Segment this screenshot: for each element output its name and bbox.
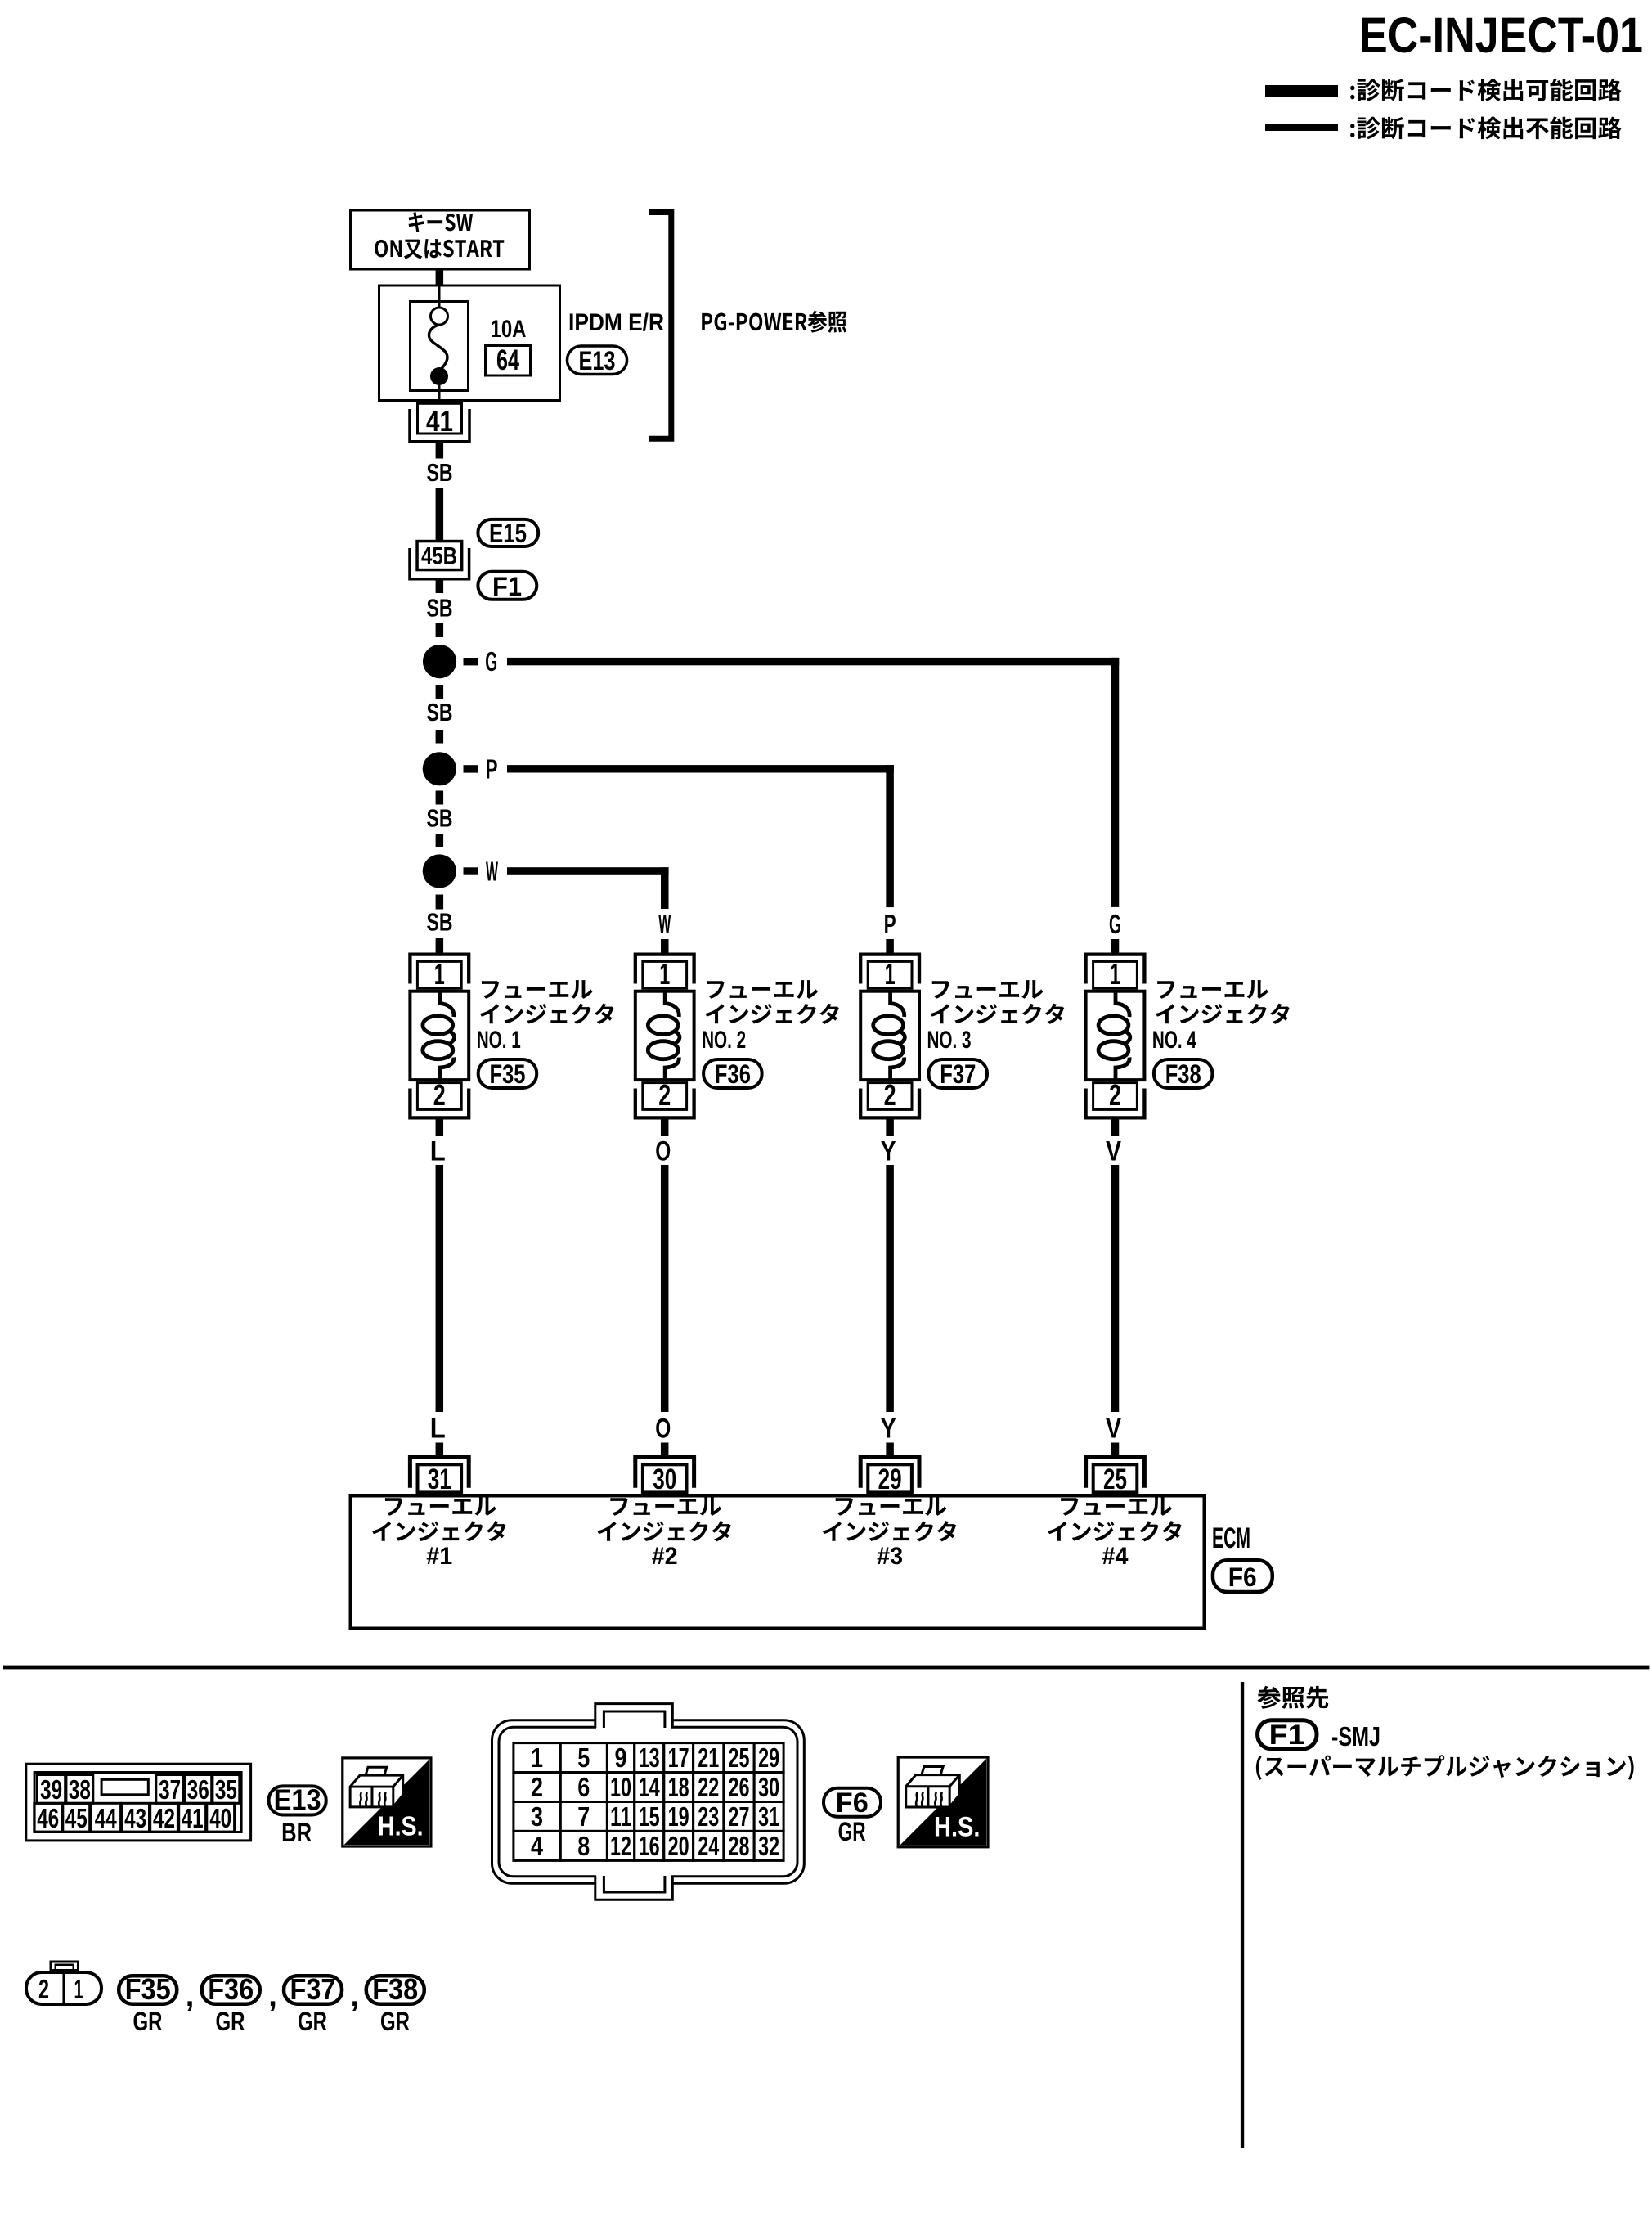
svg-text:F6: F6 — [836, 1787, 869, 1819]
connector E13 oval (BR) — [269, 1786, 326, 1814]
wire SB to connector 45B — [436, 488, 444, 540]
wire stub below pin 41 (SB) — [436, 443, 444, 459]
svg-text:1: 1 — [885, 957, 896, 991]
pin 41 of IPDM — [410, 409, 469, 442]
svg-text:15: 15 — [639, 1801, 660, 1832]
wire injector NO. 4 to ECM (V) — [1111, 1120, 1120, 1137]
connector F35 oval (GR) — [119, 1976, 177, 2004]
svg-text:O: O — [655, 1414, 671, 1445]
junction dot W branch — [423, 854, 456, 888]
svg-text:13: 13 — [639, 1742, 660, 1773]
svg-text:Y: Y — [881, 1136, 896, 1167]
svg-text:2: 2 — [38, 1974, 49, 2004]
svg-text:28: 28 — [729, 1831, 750, 1861]
svg-text:21: 21 — [698, 1742, 719, 1773]
fuse box — [411, 302, 469, 391]
svg-text:40: 40 — [209, 1803, 231, 1833]
svg-text:GR: GR — [298, 2007, 327, 2036]
svg-text:9: 9 — [615, 1742, 627, 1773]
svg-text:SB: SB — [427, 594, 453, 623]
wire dash — [436, 834, 444, 848]
label fuel injector NO. 2 — [707, 980, 817, 999]
wire dash — [436, 623, 444, 637]
svg-text:L: L — [430, 1136, 446, 1167]
legend thin-line bar (non-diagnosable circuit) — [1265, 124, 1338, 131]
connector E15 oval — [478, 519, 538, 546]
svg-text:42: 42 — [153, 1803, 175, 1833]
svg-text:SB: SB — [427, 698, 453, 726]
svg-text:F6: F6 — [1228, 1562, 1257, 1592]
svg-text:E13: E13 — [274, 1783, 321, 1817]
svg-text:2: 2 — [433, 1078, 446, 1112]
ECM pin 29 — [860, 1458, 919, 1488]
wire fuse to pin 41 — [438, 385, 441, 402]
svg-text:35: 35 — [215, 1774, 237, 1805]
svg-text:25: 25 — [1103, 1463, 1127, 1495]
svg-text:GR: GR — [380, 2007, 410, 2036]
svg-text:#1: #1 — [426, 1543, 452, 1570]
connector F37 oval — [929, 1059, 988, 1088]
IPDM E/R box — [379, 285, 560, 401]
wire G branch drop to injector NO.4 — [1111, 658, 1120, 907]
svg-text:NO. 2: NO. 2 — [702, 1027, 746, 1054]
label super multiple junction — [1256, 1755, 1634, 1780]
svg-text:31: 31 — [758, 1801, 779, 1832]
svg-text:26: 26 — [729, 1772, 750, 1802]
svg-text:2: 2 — [531, 1772, 543, 1802]
svg-text:,: , — [351, 1979, 360, 2013]
ECM label fuel injector #3 — [836, 1497, 946, 1516]
connector F6 pin grid (32 pin) — [492, 1704, 805, 1900]
svg-text:SB: SB — [427, 458, 453, 487]
svg-text:GR: GR — [838, 1817, 866, 1846]
svg-text:10A: 10A — [491, 316, 527, 343]
bracket PG-POWER reference — [649, 213, 671, 439]
svg-text:11: 11 — [610, 1801, 631, 1832]
svg-text:,: , — [186, 1979, 195, 2013]
svg-text:19: 19 — [668, 1801, 689, 1832]
svg-text:5: 5 — [577, 1742, 590, 1773]
fuse number 64 box — [486, 346, 531, 376]
svg-text:V: V — [1106, 1414, 1121, 1445]
svg-text:38: 38 — [69, 1774, 91, 1805]
connector F36 oval (GR) — [202, 1976, 260, 2004]
ECM label fuel injector #1 — [385, 1497, 496, 1516]
wire P branch horizontal — [507, 765, 894, 772]
wire dash — [436, 730, 444, 744]
connector F1 oval — [478, 572, 536, 600]
key switch box (key SW ON or START) — [351, 210, 530, 269]
svg-text:E15: E15 — [489, 519, 527, 548]
H.S. icon (harness side) for E13 — [343, 1758, 431, 1846]
svg-text:2: 2 — [658, 1078, 671, 1112]
legend thick-line bar (diagnosable circuit) — [1265, 85, 1338, 97]
svg-text:2: 2 — [1109, 1078, 1121, 1112]
svg-text:F37: F37 — [290, 1972, 336, 2006]
label fuel injector NO. 3 — [932, 980, 1043, 999]
svg-text:1: 1 — [74, 1974, 83, 2004]
wire W branch horizontal — [507, 867, 669, 875]
svg-text:W: W — [658, 909, 671, 939]
svg-text:L: L — [430, 1414, 446, 1445]
svg-text:22: 22 — [698, 1772, 719, 1802]
svg-text:14: 14 — [639, 1772, 660, 1802]
ECM pin 25 — [1086, 1458, 1145, 1488]
connector F36 oval — [703, 1059, 762, 1088]
svg-text:10: 10 — [610, 1772, 631, 1802]
svg-text:#4: #4 — [1102, 1543, 1129, 1570]
svg-text:F1: F1 — [492, 572, 522, 601]
wire dash — [436, 791, 444, 805]
branch dash to W label — [464, 867, 478, 874]
fuel injector NO. 2 coil (F36) — [635, 955, 694, 1118]
svg-text:-SMJ: -SMJ — [1331, 1721, 1380, 1751]
svg-text:NO. 1: NO. 1 — [477, 1027, 521, 1054]
svg-text:23: 23 — [698, 1801, 719, 1832]
connector E13 oval — [567, 346, 626, 374]
svg-text:24: 24 — [698, 1831, 719, 1861]
connector F6 oval (GR) — [824, 1788, 881, 1817]
svg-text:6: 6 — [577, 1772, 590, 1802]
svg-text:Y: Y — [881, 1414, 896, 1445]
label fuel injector NO. 4 — [1157, 980, 1268, 999]
wire into fuse — [438, 285, 441, 308]
svg-text:ECM: ECM — [1212, 1522, 1250, 1554]
svg-text:17: 17 — [668, 1742, 689, 1773]
svg-text:25: 25 — [729, 1742, 750, 1773]
svg-text:29: 29 — [758, 1742, 779, 1773]
vertical divider — [1241, 1682, 1244, 2148]
svg-text:18: 18 — [668, 1772, 689, 1802]
svg-text:8: 8 — [577, 1831, 590, 1861]
svg-text:F38: F38 — [1165, 1059, 1201, 1089]
svg-text:F37: F37 — [940, 1059, 976, 1089]
svg-text:F35: F35 — [490, 1059, 526, 1089]
svg-text:2: 2 — [884, 1078, 896, 1112]
svg-text:NO. 3: NO. 3 — [927, 1027, 972, 1054]
svg-text:F38: F38 — [372, 1972, 418, 2006]
junction dot G branch — [423, 645, 456, 678]
fuel injector NO. 3 coil (F37) — [860, 955, 919, 1118]
svg-text:1: 1 — [531, 1742, 543, 1773]
svg-text:,: , — [268, 1979, 277, 2013]
svg-text:36: 36 — [187, 1774, 209, 1805]
svg-text:1: 1 — [659, 957, 670, 991]
svg-text:64: 64 — [496, 344, 519, 376]
connector E13 pin grid — [26, 1764, 251, 1841]
connector F35 oval — [478, 1059, 537, 1088]
connector F38 oval (GR) — [366, 1976, 424, 2004]
svg-text:SB: SB — [427, 804, 453, 833]
connector F38 oval — [1154, 1059, 1213, 1088]
svg-text:E13: E13 — [579, 346, 616, 375]
svg-text:45: 45 — [65, 1803, 88, 1833]
svg-text:BR: BR — [281, 1818, 312, 1847]
svg-text:46: 46 — [37, 1803, 59, 1833]
svg-text:F1: F1 — [1269, 1720, 1305, 1751]
separator line — [3, 1666, 1649, 1670]
svg-text:P: P — [884, 909, 896, 939]
branch dash to G label — [464, 658, 478, 665]
branch dash to P label — [464, 765, 478, 772]
wire dash — [436, 895, 444, 910]
svg-text:EC-INJECT-01: EC-INJECT-01 — [1359, 7, 1643, 63]
svg-text:43: 43 — [124, 1803, 146, 1833]
svg-text:G: G — [1109, 909, 1121, 939]
svg-text:SB: SB — [427, 908, 453, 937]
svg-text:39: 39 — [40, 1774, 62, 1805]
fuel injector NO. 4 coil (F38) — [1086, 955, 1145, 1118]
svg-text:20: 20 — [668, 1831, 689, 1861]
wire injector NO. 2 to ECM (O) — [661, 1120, 669, 1137]
junction dot P branch — [423, 752, 456, 785]
connector F6 oval — [1213, 1560, 1273, 1592]
ECM label fuel injector #4 — [1061, 1497, 1171, 1516]
connector 45B (SMJ) — [417, 542, 462, 570]
svg-text:12: 12 — [610, 1831, 631, 1861]
svg-text:16: 16 — [639, 1831, 660, 1861]
wire stub below 45B — [436, 580, 444, 593]
fuel injector NO. 1 coil (F35) — [410, 955, 469, 1118]
svg-text:G: G — [485, 646, 497, 677]
svg-text:31: 31 — [428, 1463, 451, 1495]
label fuel injector NO. 1 — [482, 980, 592, 999]
svg-text:4: 4 — [531, 1831, 544, 1861]
label PG-POWER reference — [702, 311, 846, 333]
svg-text:NO. 4: NO. 4 — [1152, 1027, 1196, 1054]
svg-text:7: 7 — [577, 1801, 590, 1832]
svg-text:27: 27 — [729, 1801, 750, 1832]
svg-text:41: 41 — [182, 1803, 204, 1833]
wire injector NO. 1 to ECM (L) — [436, 1120, 444, 1137]
H.S. icon (harness side) for F6 — [898, 1757, 988, 1847]
svg-text:H.S.: H.S. — [378, 1811, 424, 1842]
ECM pin 30 — [635, 1458, 694, 1488]
svg-text:1: 1 — [1110, 957, 1120, 991]
2-pin injector connector face — [26, 1962, 101, 2006]
svg-text:#2: #2 — [652, 1543, 678, 1570]
svg-text:45B: 45B — [421, 543, 457, 570]
svg-text:F36: F36 — [715, 1059, 751, 1089]
svg-text:3: 3 — [531, 1801, 543, 1832]
svg-text:P: P — [486, 754, 498, 785]
svg-text:F35: F35 — [125, 1972, 171, 2006]
fuse element 10A — [431, 308, 448, 325]
legend label: diagnosable circuit — [1350, 79, 1621, 101]
svg-text:29: 29 — [878, 1463, 902, 1495]
legend label: non-diagnosable circuit — [1350, 116, 1621, 139]
svg-text:41: 41 — [426, 406, 453, 438]
svg-text:V: V — [1106, 1136, 1121, 1167]
wire P branch drop to injector NO.3 — [886, 765, 894, 907]
svg-text:30: 30 — [653, 1463, 676, 1495]
wire key-SW to IPDM — [436, 270, 444, 285]
svg-text:IPDM E/R: IPDM E/R — [568, 309, 664, 336]
svg-text:30: 30 — [758, 1772, 779, 1802]
wire stub into injector NO.1 — [436, 938, 444, 953]
svg-text:W: W — [486, 856, 498, 887]
svg-text:#3: #3 — [877, 1543, 903, 1570]
wire W branch drop to injector NO.2 — [661, 867, 669, 909]
ECM label fuel injector #2 — [610, 1497, 721, 1516]
svg-text:F36: F36 — [208, 1972, 254, 2006]
wire dash — [436, 685, 444, 699]
svg-text:44: 44 — [95, 1803, 117, 1833]
svg-text:37: 37 — [159, 1774, 181, 1805]
svg-text:H.S.: H.S. — [934, 1811, 980, 1842]
svg-text:32: 32 — [758, 1831, 779, 1861]
svg-text:O: O — [655, 1136, 671, 1167]
connector F1 oval (SMJ reference) — [1258, 1720, 1317, 1749]
wire G branch horizontal — [507, 658, 1119, 665]
ECM box — [351, 1495, 1205, 1629]
reference heading — [1257, 1686, 1328, 1709]
ECM pin 31 — [410, 1458, 469, 1488]
wire injector NO. 3 to ECM (Y) — [886, 1120, 894, 1137]
connector F37 oval (GR) — [284, 1976, 342, 2004]
svg-text:GR: GR — [216, 2007, 245, 2036]
svg-text:GR: GR — [133, 2007, 163, 2036]
svg-text:1: 1 — [434, 957, 445, 991]
